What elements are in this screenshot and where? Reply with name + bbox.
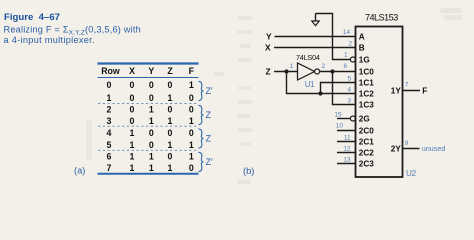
brace group rows 6-7 xyxy=(199,152,204,171)
svg-text:1: 1 xyxy=(149,105,154,115)
svg-text:3: 3 xyxy=(347,97,351,104)
pin number 12 xyxy=(343,145,351,152)
truth table top rule xyxy=(98,62,199,64)
svg-text:0: 0 xyxy=(168,152,173,162)
svg-text:2: 2 xyxy=(348,41,352,48)
svg-text:2C1: 2C1 xyxy=(359,138,374,147)
svg-text:0: 0 xyxy=(168,80,173,90)
chip pin name 2G xyxy=(359,115,370,124)
chip pin name 1C2 xyxy=(359,90,374,99)
net label Z (rows 4-5) xyxy=(206,134,212,144)
pin number 3 xyxy=(347,97,351,104)
svg-text:7: 7 xyxy=(107,163,112,173)
wire 2Y stub xyxy=(403,148,420,150)
truth table row 1 xyxy=(107,93,194,103)
svg-text:X: X xyxy=(265,43,271,53)
svg-text:1: 1 xyxy=(289,63,293,70)
svg-text:U2: U2 xyxy=(406,169,417,178)
pin number 10 xyxy=(336,122,344,129)
svg-text:0: 0 xyxy=(189,163,194,173)
svg-text:F: F xyxy=(189,66,195,76)
wire Z' branch down to pin 1C3 xyxy=(333,72,356,105)
svg-text:1: 1 xyxy=(189,140,194,150)
wire 1Y to F xyxy=(403,90,421,92)
svg-text:F: F xyxy=(422,86,427,96)
svg-text:1: 1 xyxy=(189,116,194,126)
pin stub 2C2 xyxy=(337,152,356,154)
truth table row 2 xyxy=(107,105,194,115)
svg-text:1C0: 1C0 xyxy=(359,68,374,77)
svg-text:1G: 1G xyxy=(359,56,370,65)
chip pin name 1C1 xyxy=(359,79,374,88)
svg-text:2C3: 2C3 xyxy=(359,160,374,169)
pin number 4 xyxy=(347,86,351,93)
svg-text:74LS04: 74LS04 xyxy=(296,53,320,62)
chip pin name B xyxy=(359,44,365,53)
pin stub 2C1 xyxy=(337,141,356,143)
net label Z' (rows 6-7) xyxy=(206,157,213,167)
1G inversion bubble xyxy=(350,57,355,62)
svg-text:1: 1 xyxy=(130,128,135,138)
wire inverter output to pin 1C0 xyxy=(320,71,356,73)
svg-text:0: 0 xyxy=(189,105,194,115)
svg-text:0: 0 xyxy=(168,105,173,115)
svg-text:4: 4 xyxy=(107,128,112,138)
truth table row 3 xyxy=(107,116,194,126)
svg-text:(a): (a) xyxy=(74,165,85,175)
output label F xyxy=(422,86,427,96)
svg-text:Y: Y xyxy=(266,32,272,42)
label unused xyxy=(422,144,446,153)
junction on Z wire xyxy=(284,69,288,73)
wire X to pin B xyxy=(274,47,356,49)
svg-text:1C1: 1C1 xyxy=(359,79,374,88)
svg-text:10: 10 xyxy=(336,122,344,129)
net label Z (rows 2-3) xyxy=(206,110,212,120)
svg-text:a 4-input multiplexer.: a 4-input multiplexer. xyxy=(4,35,95,45)
pin number 13 xyxy=(343,156,351,163)
svg-text:0: 0 xyxy=(107,80,112,90)
truth table row 6 xyxy=(107,152,194,162)
svg-text:0: 0 xyxy=(189,128,194,138)
wire Z branch down xyxy=(287,72,321,94)
svg-text:6: 6 xyxy=(343,63,347,70)
svg-text:2: 2 xyxy=(107,105,112,115)
svg-text:12: 12 xyxy=(343,145,351,152)
svg-text:15: 15 xyxy=(334,111,342,118)
svg-text:14: 14 xyxy=(343,29,351,36)
pin number 2 xyxy=(348,41,352,48)
inverter pin number 2 xyxy=(322,63,326,70)
svg-text:1: 1 xyxy=(130,152,135,162)
2G inversion bubble xyxy=(350,116,355,121)
svg-text:5: 5 xyxy=(347,75,351,82)
svg-text:1: 1 xyxy=(149,116,154,126)
chip ref label U2 xyxy=(406,169,417,178)
pin number 7 xyxy=(405,81,409,88)
svg-text:Z: Z xyxy=(167,66,173,76)
brace group rows 2-3 xyxy=(199,105,204,124)
svg-text:6: 6 xyxy=(107,152,112,162)
pin number 9 xyxy=(405,140,409,147)
svg-text:Z: Z xyxy=(206,134,212,144)
chip pin name 1G xyxy=(359,56,370,65)
inverter U1 74LS04 xyxy=(298,63,320,80)
svg-text:0: 0 xyxy=(168,128,173,138)
chip output name 1Y xyxy=(391,86,402,95)
wire branch to pin 1C2 xyxy=(321,93,356,95)
svg-text:Row: Row xyxy=(101,66,120,76)
svg-text:11: 11 xyxy=(344,134,351,141)
chip pin name 2C1 xyxy=(359,138,374,147)
truth table row 5 xyxy=(107,140,194,150)
pin number 15 xyxy=(334,111,342,118)
svg-text:0: 0 xyxy=(149,128,154,138)
truth table header xyxy=(101,66,194,76)
pin stub 2C3 xyxy=(337,163,356,165)
svg-text:0: 0 xyxy=(189,93,194,103)
svg-text:1: 1 xyxy=(168,93,173,103)
pin number 1 xyxy=(344,52,348,59)
svg-text:1: 1 xyxy=(189,152,194,162)
svg-text:A: A xyxy=(359,33,365,42)
pin number 5 xyxy=(347,75,351,82)
chip pin name 2C0 xyxy=(359,127,374,136)
pin number 11 xyxy=(344,134,351,141)
svg-text:3: 3 xyxy=(107,116,112,126)
svg-text:1Y: 1Y xyxy=(391,86,402,95)
svg-text:4: 4 xyxy=(347,86,351,93)
svg-text:1C2: 1C2 xyxy=(359,90,374,99)
svg-text:unused: unused xyxy=(422,144,446,153)
subfigure label (a) xyxy=(74,165,85,175)
svg-text:2G: 2G xyxy=(359,115,370,124)
svg-text:0: 0 xyxy=(149,80,154,90)
subfigure label (b) xyxy=(243,166,254,176)
junction on Z' wire xyxy=(330,69,334,73)
pin stub 2G xyxy=(337,118,350,120)
pin stub 2C0 xyxy=(337,130,356,132)
caption line 2 xyxy=(4,35,95,45)
svg-text:0: 0 xyxy=(130,93,135,103)
svg-text:1: 1 xyxy=(168,140,173,150)
svg-text:1: 1 xyxy=(107,93,112,103)
svg-text:5: 5 xyxy=(107,140,112,150)
truth table row 4 xyxy=(107,128,194,138)
svg-text:0: 0 xyxy=(130,116,135,126)
svg-text:13: 13 xyxy=(343,156,351,163)
wire Y to pin A xyxy=(275,36,356,38)
chip pin name 2C2 xyxy=(359,149,374,158)
junction Z branch to 1C1/1C2 xyxy=(318,91,322,95)
truth table bottom rule xyxy=(98,173,199,175)
brace group rows 4-5 xyxy=(199,129,204,148)
svg-text:Z: Z xyxy=(266,67,271,77)
svg-text:7: 7 xyxy=(405,81,409,88)
wire ground to pin 1G xyxy=(316,14,351,60)
svg-text:B: B xyxy=(359,44,365,53)
pin number 6 xyxy=(343,63,347,70)
svg-text:2: 2 xyxy=(322,63,326,70)
wire branch up to pin 1C1 xyxy=(321,83,356,94)
svg-text:Y: Y xyxy=(148,66,154,76)
svg-text:1: 1 xyxy=(149,152,154,162)
inverter part label 74LS04 xyxy=(296,53,320,62)
svg-text:0: 0 xyxy=(149,140,154,150)
svg-text:U1: U1 xyxy=(305,80,314,89)
svg-text:Z′: Z′ xyxy=(206,157,213,167)
chip pin name A xyxy=(359,33,365,42)
chip pin name 1C0 xyxy=(359,68,374,77)
svg-text:2C2: 2C2 xyxy=(359,149,374,158)
inverter pin number 1 xyxy=(289,63,293,70)
ground symbol xyxy=(312,14,319,26)
svg-text:9: 9 xyxy=(405,140,409,147)
svg-text:1: 1 xyxy=(189,80,194,90)
svg-text:0: 0 xyxy=(130,105,135,115)
svg-text:1: 1 xyxy=(344,52,348,59)
svg-text:1: 1 xyxy=(130,163,135,173)
chip output name 2Y xyxy=(391,144,402,153)
signal label X xyxy=(265,43,271,53)
svg-text:1: 1 xyxy=(168,116,173,126)
svg-text:1: 1 xyxy=(130,140,135,150)
signal label Y xyxy=(266,32,272,42)
dashed separator 2 xyxy=(98,125,198,127)
wire Z to inverter input xyxy=(274,71,298,73)
chip pin name 1C3 xyxy=(359,101,374,110)
inverter ref label U1 xyxy=(305,80,314,89)
signal label Z xyxy=(266,67,271,77)
truth table row 0 xyxy=(107,80,194,90)
pin number 14 xyxy=(343,29,351,36)
svg-text:74LS153: 74LS153 xyxy=(365,12,398,22)
svg-text:Z: Z xyxy=(206,110,212,120)
multiplexer U2 74LS153 body xyxy=(356,27,403,178)
svg-text:1: 1 xyxy=(149,163,154,173)
svg-text:0: 0 xyxy=(130,80,135,90)
svg-text:Figure 4–67: Figure 4–67 xyxy=(4,12,60,23)
svg-text:0: 0 xyxy=(149,93,154,103)
dashed separator 3 xyxy=(98,149,198,151)
svg-text:2C0: 2C0 xyxy=(359,127,374,136)
net label Z' (rows 0-1) xyxy=(206,86,213,96)
svg-text:X: X xyxy=(129,66,135,76)
svg-text:2Y: 2Y xyxy=(391,144,402,153)
chip part label 74LS153 xyxy=(365,12,398,22)
svg-text:1: 1 xyxy=(168,163,173,173)
svg-text:Z′: Z′ xyxy=(206,86,213,96)
truth table header rule xyxy=(98,77,199,79)
svg-text:1C3: 1C3 xyxy=(359,101,374,110)
scan ghost artifacts (page show-through) xyxy=(86,8,462,184)
dashed separator 1 xyxy=(98,103,198,105)
figure title xyxy=(4,12,60,23)
svg-text:(b): (b) xyxy=(243,166,254,176)
chip pin name 2C3 xyxy=(359,160,374,169)
truth table row 7 xyxy=(107,163,194,173)
caption line 1 xyxy=(4,25,141,37)
brace group rows 0-1 xyxy=(199,81,204,100)
